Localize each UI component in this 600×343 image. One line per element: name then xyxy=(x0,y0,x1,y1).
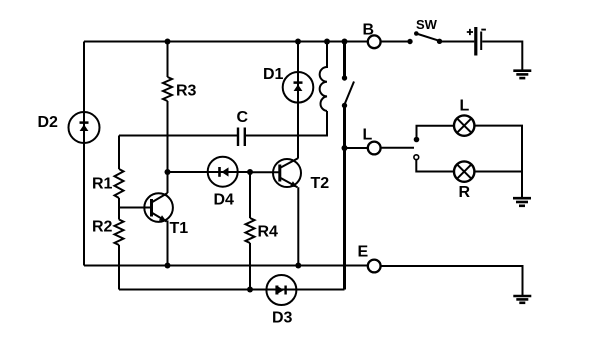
battery minus sign xyxy=(481,29,486,31)
wire L terminal left xyxy=(345,147,368,149)
capacitor C xyxy=(238,128,245,147)
junction dot D4 right xyxy=(247,169,253,175)
resistor R3 xyxy=(163,77,172,101)
diode D3 xyxy=(266,275,296,305)
wire relay armature vertical xyxy=(343,106,346,290)
ground G1 xyxy=(513,71,531,78)
diode D1 xyxy=(283,72,314,103)
selector upper contact dot xyxy=(414,137,420,143)
terminal E xyxy=(368,260,381,273)
lamp L xyxy=(454,115,474,135)
svg-text:T2: T2 xyxy=(311,175,330,192)
wire T2 emitter lead xyxy=(297,187,299,265)
transistor T1 xyxy=(144,193,173,222)
wire selector to lamp L xyxy=(417,126,455,138)
wire E terminal to ground xyxy=(381,266,523,296)
svg-text:L: L xyxy=(363,127,373,144)
wire capacitor left lead xyxy=(119,135,237,137)
junction dot top rail D1 xyxy=(295,39,301,45)
junction dot L row xyxy=(342,145,348,151)
junction dot E row T2 xyxy=(295,263,301,269)
wire bottom bus xyxy=(119,289,345,291)
junction dot D4 left xyxy=(165,169,171,175)
transistor T2 xyxy=(273,158,301,187)
wire relay fixed contact lead xyxy=(343,42,346,78)
junction dot top rail relay xyxy=(342,39,348,45)
wire lamp R right xyxy=(474,171,522,173)
svg-text:D4: D4 xyxy=(214,192,235,209)
wire left rail xyxy=(83,42,85,266)
wire T1 emitter lead xyxy=(167,221,169,266)
svg-text:SW: SW xyxy=(416,17,438,32)
svg-text:T1: T1 xyxy=(170,220,189,237)
ground G3 xyxy=(513,296,531,303)
wire selector to lamp R xyxy=(416,160,454,172)
svg-text:R: R xyxy=(459,184,471,201)
selector lower contact circle xyxy=(414,155,419,160)
diode D2 xyxy=(69,112,100,143)
switch SW left dot xyxy=(407,39,412,44)
wire R1/R2 branch xyxy=(118,136,120,290)
switch SW blade tip dot xyxy=(414,31,419,36)
svg-text:B: B xyxy=(363,22,375,39)
wire top rail xyxy=(84,41,368,43)
wire emitter bus (E row) xyxy=(84,265,368,267)
wire lamp L right xyxy=(474,126,522,198)
resistor R4 xyxy=(246,218,255,243)
switch SW blade xyxy=(416,34,439,41)
relay contact pivot dot xyxy=(342,103,347,108)
ground G2 xyxy=(513,198,531,206)
svg-text:R4: R4 xyxy=(258,224,279,241)
svg-text:C: C xyxy=(237,109,249,126)
terminal B xyxy=(368,35,381,48)
svg-text:E: E xyxy=(358,244,369,261)
wire capacitor right lead to coil xyxy=(246,111,327,136)
svg-text:R2: R2 xyxy=(92,219,113,236)
lamp R xyxy=(454,161,474,181)
battery xyxy=(476,27,481,56)
junction dot bottom R4 xyxy=(247,287,253,293)
diode D4 xyxy=(208,157,238,187)
wire T2 base lead xyxy=(250,171,280,173)
resistor R2 xyxy=(115,220,124,246)
relay coil xyxy=(320,42,327,112)
wire D4 row left xyxy=(168,171,208,173)
svg-text:D3: D3 xyxy=(272,310,293,327)
junction dot top rail R3 xyxy=(165,39,171,45)
resistor R1 xyxy=(115,169,124,198)
terminal L xyxy=(368,142,381,155)
svg-text:R1: R1 xyxy=(92,176,113,193)
junction dot E row T1 xyxy=(165,263,171,269)
wire B terminal to switch xyxy=(381,41,410,43)
wire R4 branch xyxy=(249,172,251,290)
wire T1 base lead xyxy=(119,207,151,209)
relay contact upper dot xyxy=(342,75,347,80)
svg-text:R3: R3 xyxy=(176,83,197,100)
wire D1 branch / T2 collector xyxy=(297,42,299,159)
switch SW right dot xyxy=(437,39,442,44)
junction dot top rail coil xyxy=(324,39,330,45)
wire D4 row right xyxy=(238,171,250,173)
wire L terminal to selector xyxy=(381,147,414,149)
wire battery to ground xyxy=(482,42,522,71)
wire R3 branch / T1 collector xyxy=(167,42,169,194)
svg-text:D2: D2 xyxy=(38,114,59,131)
svg-text:D1: D1 xyxy=(263,66,284,83)
relay contact blade xyxy=(345,82,355,105)
battery plus sign xyxy=(467,29,473,35)
wire switch to battery xyxy=(440,41,475,43)
svg-text:L: L xyxy=(460,98,470,115)
